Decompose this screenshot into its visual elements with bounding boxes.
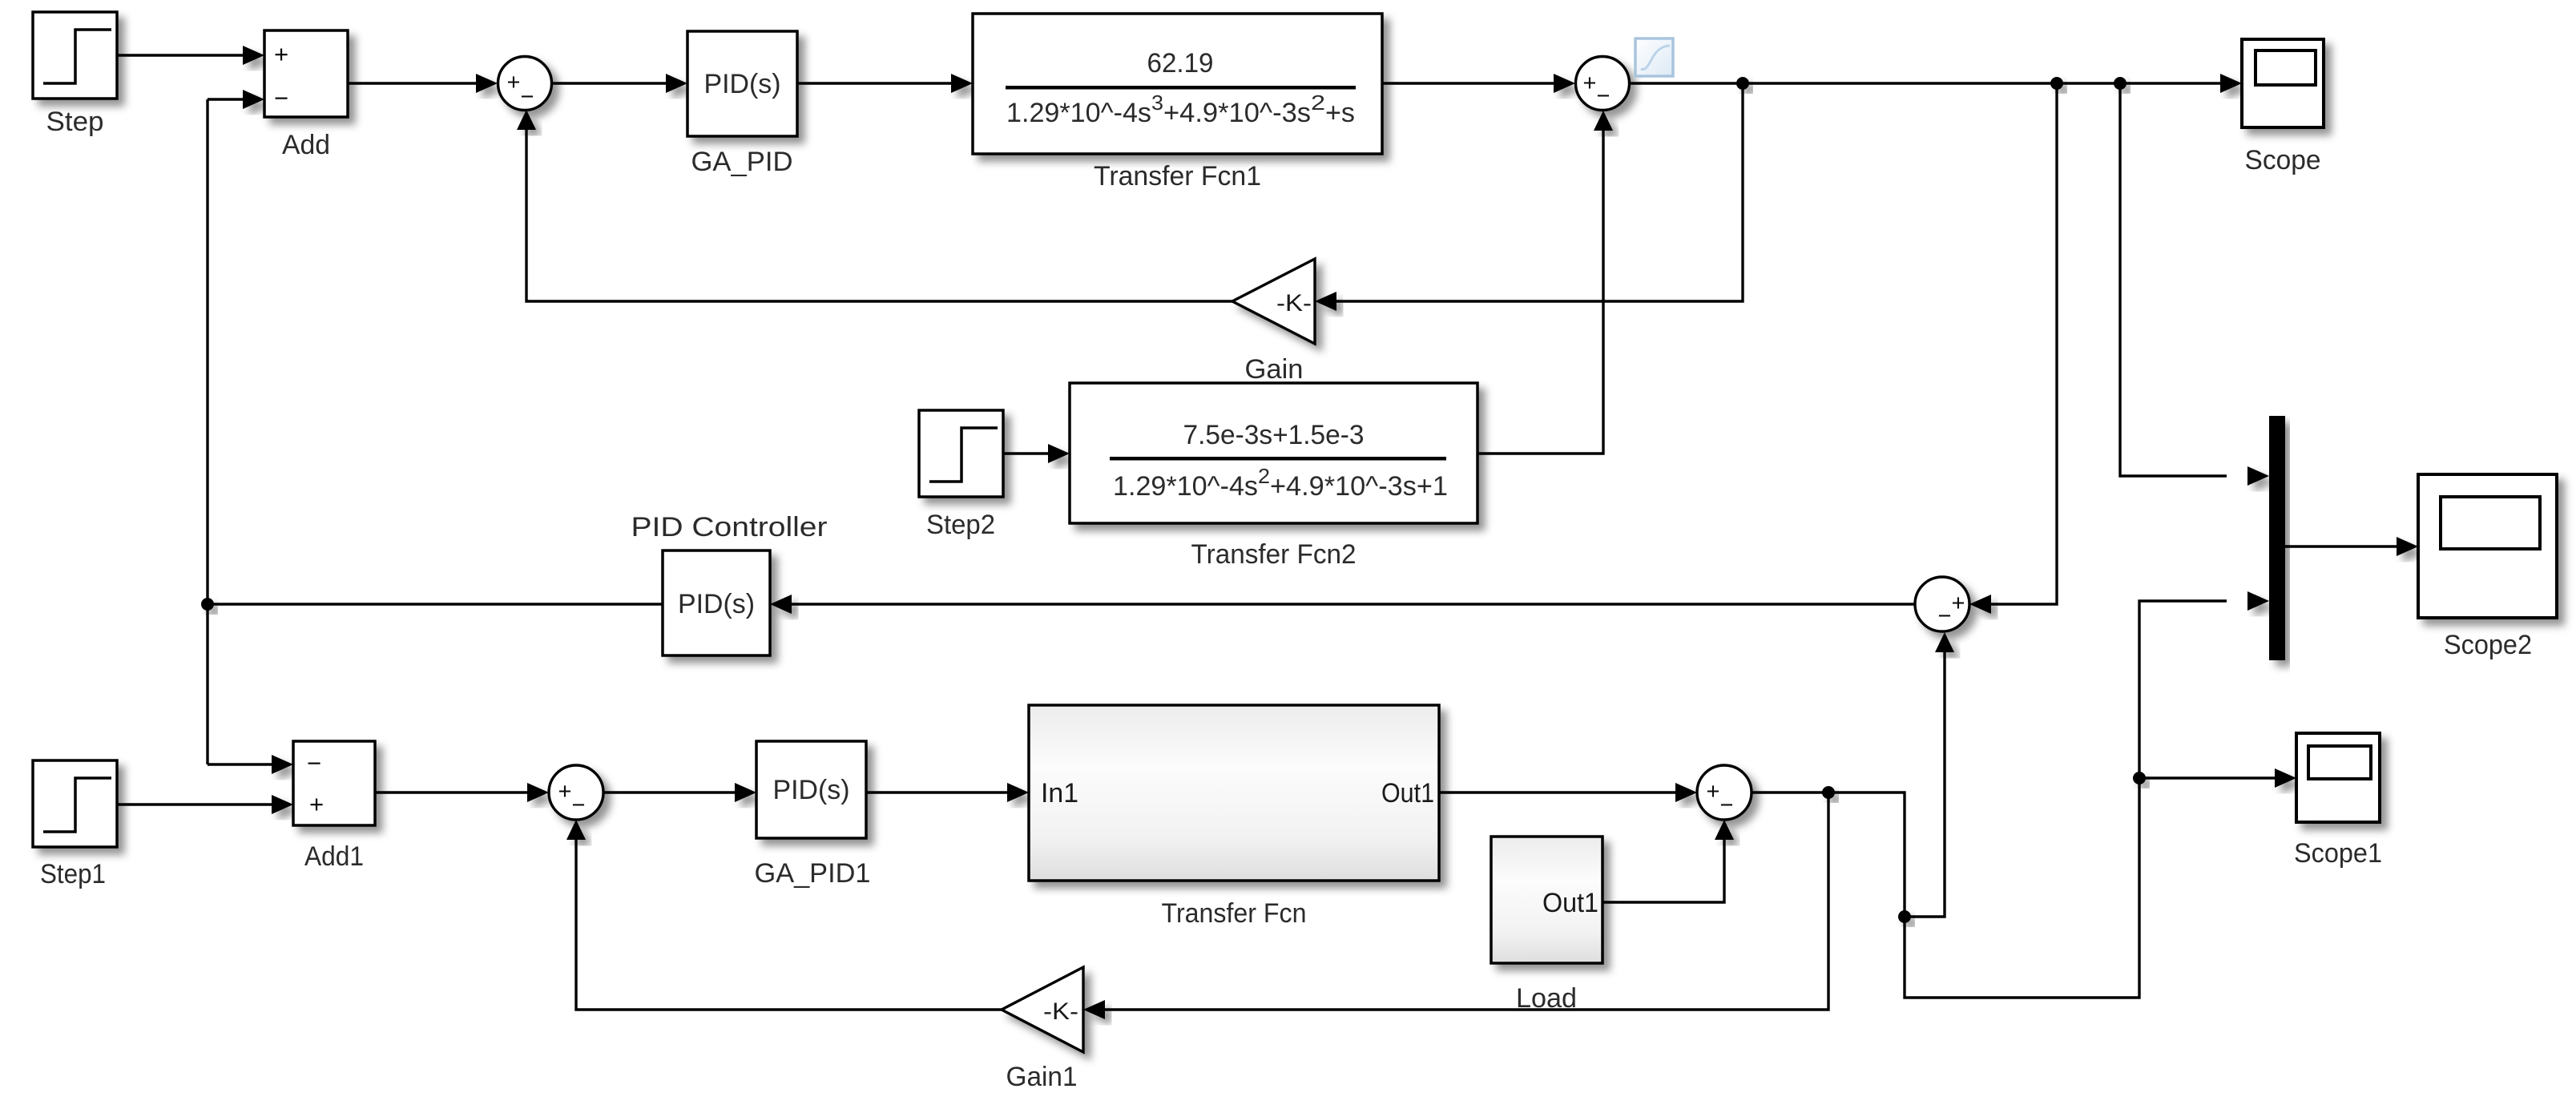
svg-text:Transfer Fcn1: Transfer Fcn1 (1094, 161, 1261, 192)
svg-text:−: − (572, 792, 586, 818)
svg-text:Transfer Fcn2: Transfer Fcn2 (1191, 539, 1357, 570)
svg-text:Scope2: Scope2 (2444, 630, 2532, 660)
wire Sum1 to GA_PID (552, 82, 666, 84)
wire GA_PID1 to Transfer Fcn subsystem (866, 791, 1007, 793)
block Gain (triangle -K-) (1232, 259, 1315, 344)
block Step2 (step source) (919, 410, 1003, 497)
sum junction Sum1 (498, 57, 552, 111)
svg-text:+4.9*10^-3s+1: +4.9*10^-3s+1 (1270, 471, 1448, 502)
block Transfer Fcn1 (973, 14, 1382, 154)
wire trunk to Mux input 1 (2120, 83, 2227, 476)
svg-text:PID(s): PID(s) (773, 775, 850, 805)
junction dot at PID Controller output on trunk (201, 598, 214, 611)
wire Transfer Fcn1 to Sum2 (1382, 82, 1554, 84)
svg-text:−: − (1938, 603, 1952, 629)
wire Add2 output to PID Controller input (792, 603, 1915, 605)
badge logged-signal indicator (1635, 38, 1673, 76)
svg-text:−: − (274, 84, 288, 112)
wire Sum4 output routing to Mux input 2 (1752, 601, 2227, 998)
block Add (sum rectangle) (264, 30, 348, 117)
svg-text:Step1: Step1 (40, 859, 106, 889)
svg-text:-K-: -K- (1276, 290, 1312, 317)
svg-text:+: + (1707, 779, 1720, 805)
svg-text:1.29*10^-4s: 1.29*10^-4s (1006, 98, 1151, 128)
svg-text:2: 2 (1258, 464, 1270, 488)
wire trunk to Gain input (feedback) (1336, 83, 1743, 301)
svg-text:−: − (521, 84, 534, 110)
svg-text:Out1: Out1 (1381, 778, 1434, 809)
wire Sum3 to GA_PID1 (603, 791, 735, 793)
wire Transfer Fcn Out1 to Sum4 (1439, 791, 1675, 793)
block Step (step source) (33, 12, 117, 99)
block Load (subsystem) (1491, 837, 1602, 963)
wire branch to Add1 top input (208, 763, 272, 765)
wire feedback to Gain1 input (1105, 792, 1828, 1010)
block Scope (2242, 39, 2324, 127)
block Scope2 (2418, 474, 2557, 618)
svg-text:2: 2 (1311, 91, 1325, 115)
wire branch to Add - input (208, 98, 243, 100)
svg-text:PID(s): PID(s) (678, 589, 755, 619)
wire GA_PID to Transfer Fcn1 (797, 82, 951, 84)
wire feedback vertical trunk x259 (Add2 output net) (206, 99, 208, 764)
wire Step1 to Add1 + input (116, 803, 272, 805)
block PID Controller (flipped) (663, 550, 770, 655)
svg-text:Load: Load (1516, 983, 1577, 1014)
block Mux (black bar) (2269, 416, 2285, 660)
wire PID Controller output to trunk x259 (208, 603, 663, 605)
wire Add output to Sum1 (348, 82, 476, 84)
svg-text:Gain1: Gain1 (1006, 1062, 1078, 1092)
svg-text:+4.9*10^-3s: +4.9*10^-3s (1163, 98, 1311, 128)
svg-text:Out1: Out1 (1542, 888, 1598, 918)
svg-text:-K-: -K- (1043, 998, 1078, 1025)
junction dot top trunk x2646 (2114, 77, 2127, 90)
svg-text:PID(s): PID(s) (704, 69, 781, 99)
wire junction to Scope1 (2139, 776, 2275, 779)
wire Mux output to Scope2 (2285, 545, 2397, 547)
svg-text:Add: Add (282, 130, 330, 160)
svg-text:Add1: Add1 (304, 841, 364, 872)
junction dot x2670 y971 (2133, 772, 2146, 784)
junction dot x2377 y1144 (1898, 910, 1911, 923)
block Gain1 (triangle -K-) (1002, 967, 1083, 1052)
svg-text:Gain: Gain (1245, 354, 1304, 385)
svg-text:+: + (1583, 71, 1597, 96)
svg-text:7.5e-3s+1.5e-3: 7.5e-3s+1.5e-3 (1183, 420, 1365, 450)
svg-text:62.19: 62.19 (1147, 48, 1214, 79)
svg-text:PID Controller: PID Controller (631, 512, 828, 542)
svg-text:Step: Step (46, 107, 104, 137)
block Scope1 (2296, 733, 2380, 822)
block Step1 (step source) (33, 760, 117, 847)
svg-text:+s: +s (1325, 98, 1355, 128)
svg-text:Step2: Step2 (926, 510, 995, 540)
svg-text:+: + (507, 70, 521, 95)
fraction bar Transfer Fcn1 (1006, 86, 1356, 90)
wire top trunk Sum2 to Scope (1630, 82, 2220, 84)
svg-text:In1: In1 (1041, 778, 1078, 809)
wire trunk to Add2 right input (1991, 83, 2057, 604)
block GA_PID1 (PID controller) (756, 741, 866, 838)
svg-text:Scope: Scope (2245, 145, 2321, 175)
svg-text:GA_PID: GA_PID (691, 147, 793, 177)
wire Gain1 output to Sum3 bottom input (576, 840, 1002, 1010)
svg-text:+: + (558, 779, 572, 805)
svg-text:+: + (309, 790, 324, 818)
sum junction Add2 (middle right) (1915, 577, 1969, 631)
svg-text:+: + (274, 40, 288, 68)
sum junction Sum4 (bottom right) (1697, 765, 1752, 820)
block Transfer Fcn subsystem (1029, 705, 1439, 881)
wire Step2 to Transfer Fcn2 (1003, 452, 1048, 454)
svg-text:−: − (1597, 83, 1611, 109)
svg-text:3: 3 (1151, 91, 1163, 115)
wire Transfer Fcn2 to Sum2 bottom input (1477, 131, 1603, 454)
wire Add1 output to Sum3 (375, 791, 527, 793)
sum junction Sum2 (1576, 57, 1630, 111)
wire Load to Sum4 bottom input (1602, 840, 1724, 902)
junction dot Sum4 output x2282 (1822, 786, 1835, 799)
wire junction to Add2 bottom input (1905, 652, 1945, 917)
block Transfer Fcn2 (1070, 383, 1477, 523)
wire Step to Add + input (117, 54, 243, 56)
svg-text:GA_PID1: GA_PID1 (755, 858, 871, 889)
svg-text:+: + (1952, 591, 1965, 616)
svg-text:1.29*10^-4s: 1.29*10^-4s (1113, 471, 1258, 502)
junction dot top trunk x2175 (1736, 77, 1749, 90)
svg-text:Scope1: Scope1 (2294, 838, 2382, 869)
block GA_PID (PID controller) (687, 31, 797, 136)
svg-text:−: − (307, 749, 321, 777)
junction dot top trunk x2567 (2050, 77, 2063, 90)
sum junction Sum3 (bottom left) (549, 765, 603, 820)
wire Gain output to Sum1 bottom input (526, 130, 1232, 301)
svg-text:Transfer Fcn: Transfer Fcn (1162, 898, 1307, 929)
svg-text:−: − (1720, 792, 1734, 818)
block Add1 (sum rectangle) (293, 741, 375, 825)
fraction bar Transfer Fcn2 (1110, 457, 1446, 461)
